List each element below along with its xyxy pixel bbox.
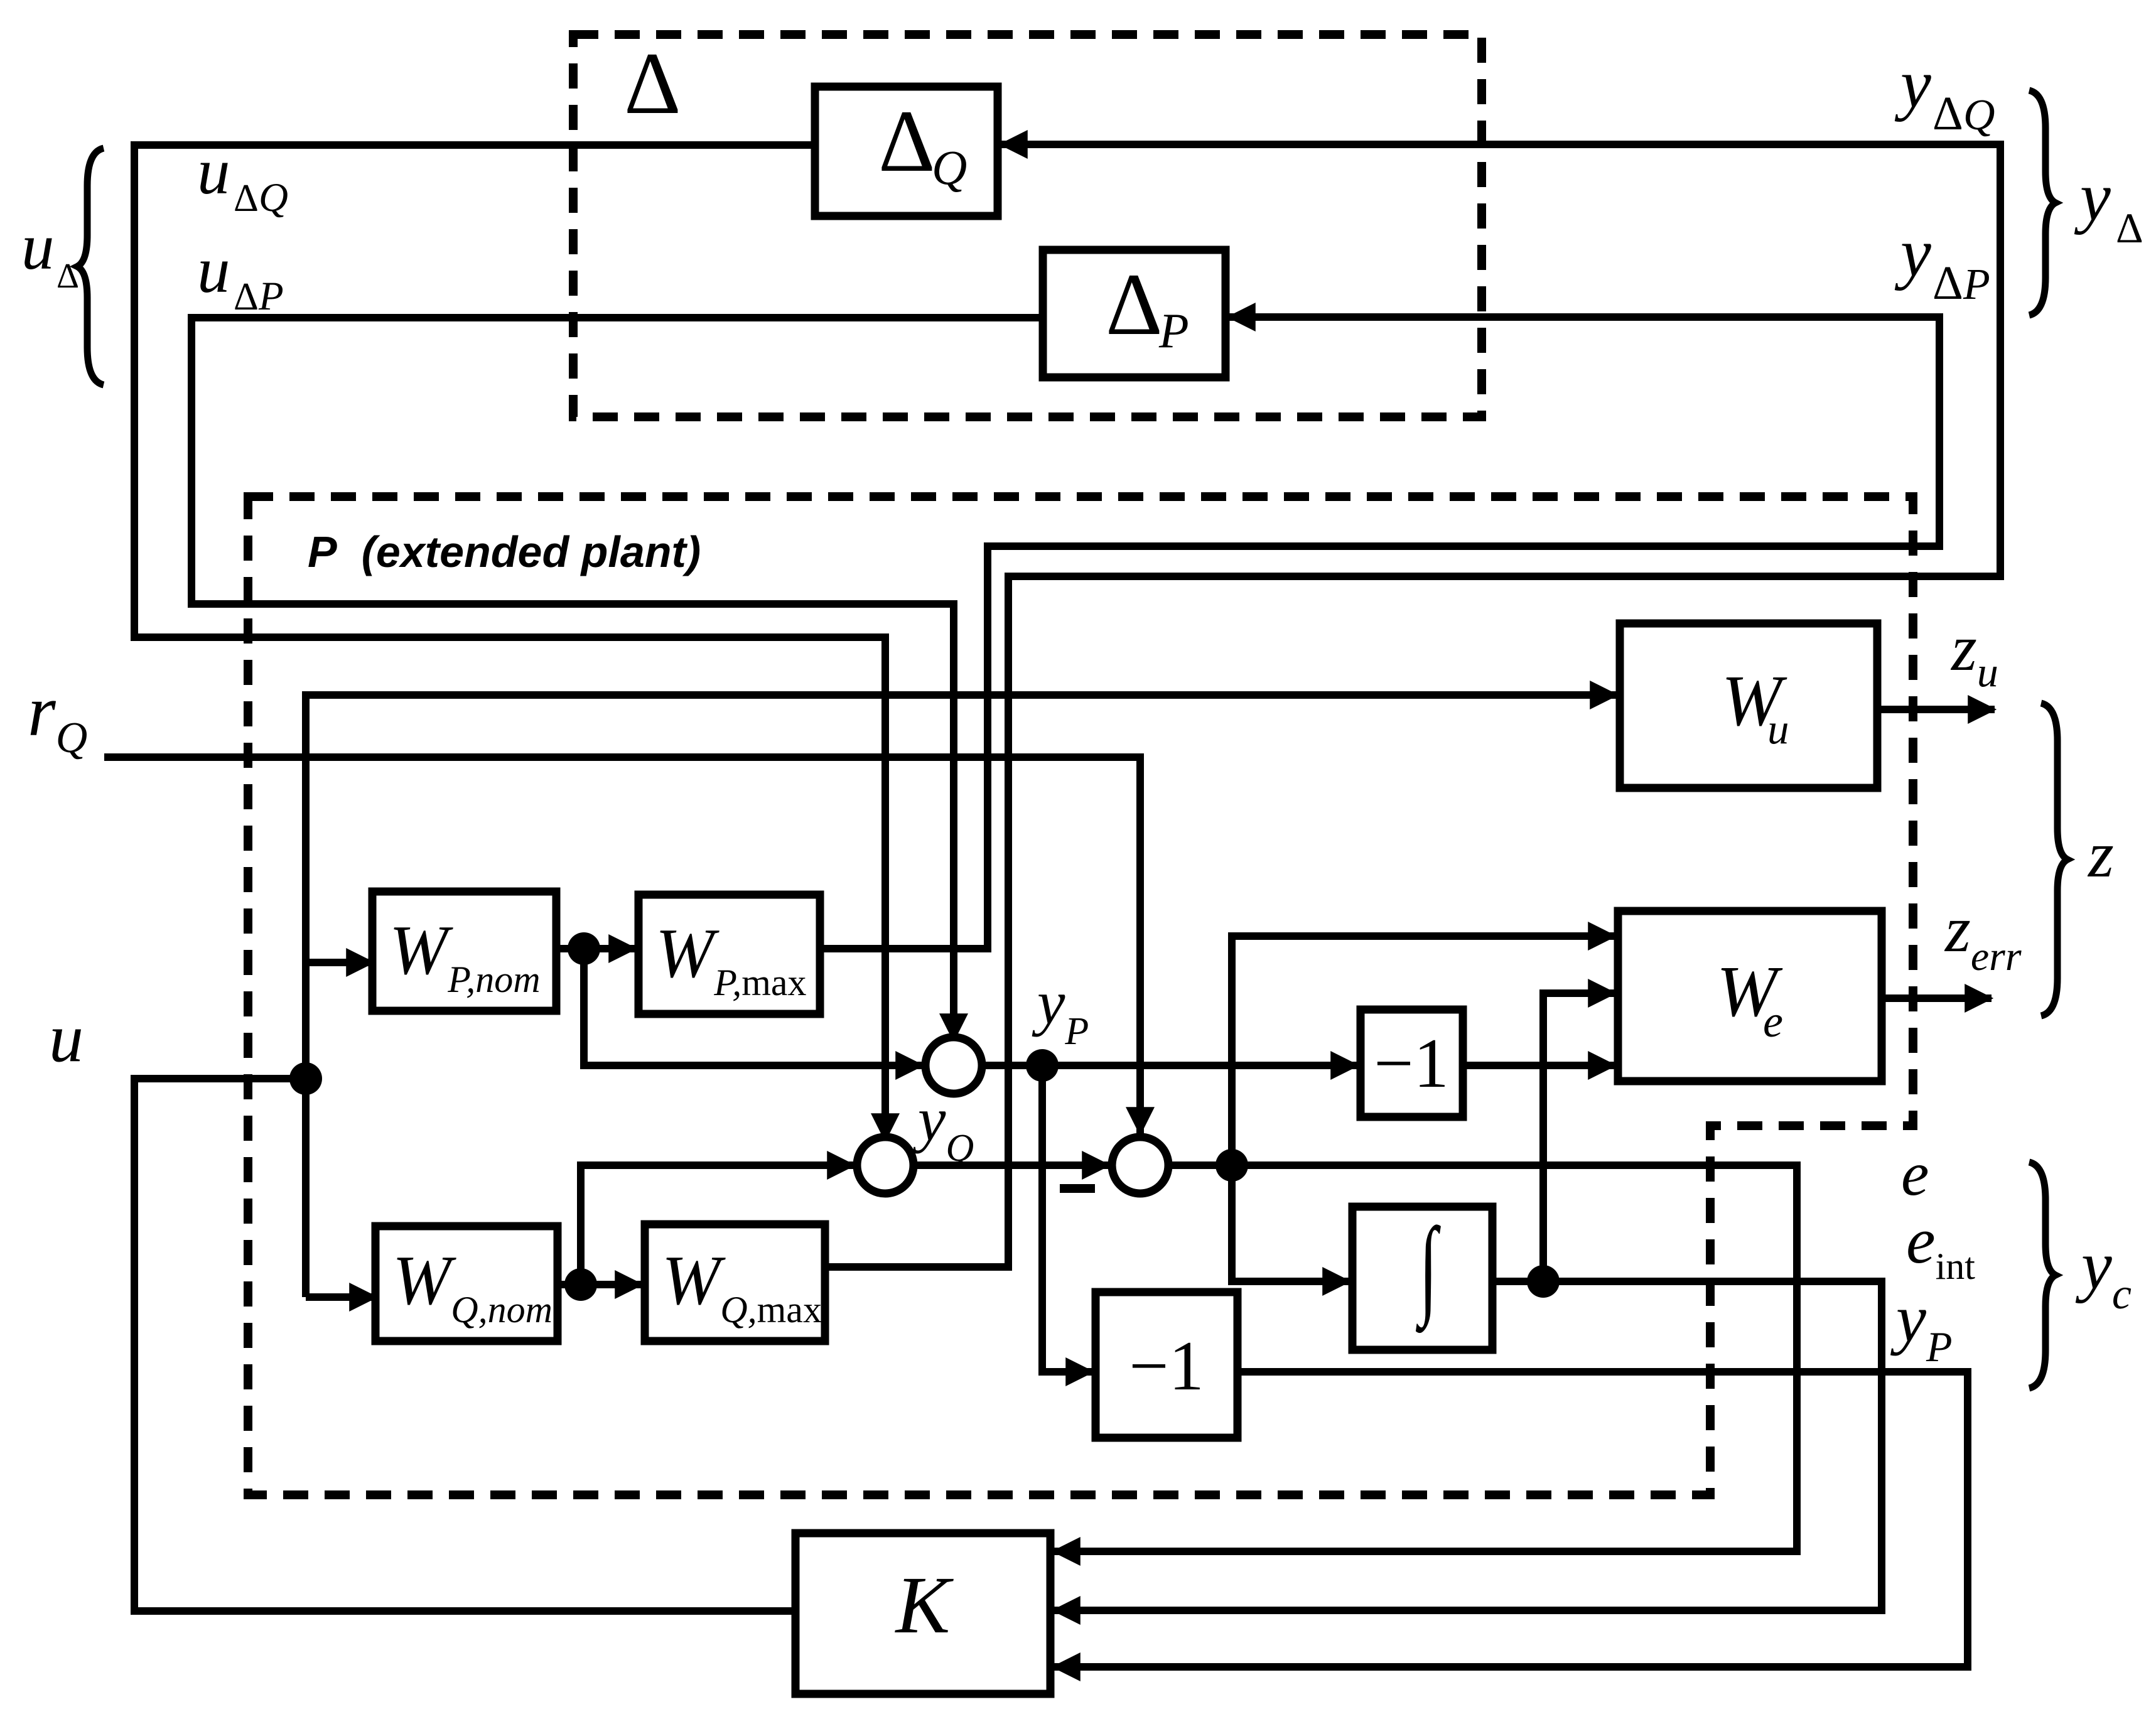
label Delta_P bbox=[1106, 256, 1189, 358]
wire u branch into W_Q,nom bbox=[306, 1293, 376, 1301]
svg-text:Δ: Δ bbox=[57, 257, 79, 296]
svg-text:u: u bbox=[197, 134, 230, 208]
svg-text:u: u bbox=[49, 1000, 84, 1076]
block Delta_P bbox=[1043, 250, 1226, 377]
wire W_Q,nom branch up into y_Q sum bbox=[581, 1165, 854, 1285]
block Delta_Q bbox=[815, 87, 998, 216]
label W_e bbox=[1717, 952, 1783, 1047]
wire y_Q: sum output into minus junction bbox=[914, 1161, 1109, 1169]
svg-text:P: P bbox=[1158, 303, 1189, 358]
brace z bbox=[2041, 703, 2067, 1016]
svg-text:zu: zu bbox=[1950, 611, 1998, 696]
wire W_P,nom output to W_P,max bbox=[556, 945, 635, 952]
extended plant boundary (dashed box P, with bottom-right notch) bbox=[248, 497, 1913, 1495]
wire e riser into W_e top input bbox=[1232, 936, 1615, 1165]
svg-text:Δ: Δ bbox=[234, 276, 259, 318]
svg-text:rQ: rQ bbox=[28, 671, 87, 762]
svg-text:yP: yP bbox=[1890, 1281, 1952, 1371]
wire u riser: node up to W_u input bbox=[306, 695, 1617, 1297]
svg-text:WP,max: WP,max bbox=[655, 915, 807, 1003]
junction node e bbox=[1215, 1149, 1248, 1182]
wire u_DeltaP: Delta_P output left, down, right, down into y_P sum bbox=[191, 318, 1043, 1040]
svg-text:∫: ∫ bbox=[1416, 1206, 1442, 1334]
wire y_DeltaQ: W_Q,max output up and around into Delta_Q bbox=[825, 144, 2000, 1267]
wire e branch down into integrator bbox=[1232, 1165, 1349, 1281]
brace y_c bbox=[2029, 1162, 2056, 1388]
svg-text:Q: Q bbox=[932, 140, 967, 195]
brace u_Delta bbox=[77, 148, 104, 385]
svg-text:Δ: Δ bbox=[624, 35, 681, 132]
summing junction y_P bbox=[925, 1037, 982, 1094]
block W_P,nom bbox=[372, 892, 556, 1011]
minus sign at e summing junction bbox=[1060, 1184, 1095, 1193]
block W_Q,max bbox=[645, 1224, 825, 1341]
block integrator bbox=[1352, 1207, 1492, 1350]
svg-text:e: e bbox=[1763, 996, 1783, 1047]
block W_u bbox=[1620, 623, 1877, 788]
label Delta_Q bbox=[878, 92, 967, 195]
svg-text:−1: −1 bbox=[1129, 1327, 1204, 1405]
block W_Q,nom bbox=[375, 1226, 558, 1341]
svg-text:Δ: Δ bbox=[878, 92, 935, 190]
wire z_err: W_e output arrow bbox=[1882, 994, 1992, 1002]
svg-text:yQ: yQ bbox=[912, 1084, 974, 1170]
summing junction y_Q bbox=[857, 1137, 914, 1194]
svg-text:Δ: Δ bbox=[234, 177, 259, 220]
wire u_DeltaQ: Delta_Q output left, down, right, down into y_Q sum bbox=[134, 145, 885, 1140]
svg-text:K: K bbox=[895, 1560, 954, 1651]
summing junction e (with minus) bbox=[1112, 1137, 1168, 1194]
wire y_P measurement: lower -1 output right, down and left into K input 3 bbox=[1054, 1372, 1968, 1667]
svg-text:eint: eint bbox=[1906, 1204, 1975, 1287]
wire e: minus junction output right, down and left into K input 1 bbox=[1054, 1165, 1797, 1551]
wire u: controller K output left and up to plant input node bbox=[134, 1079, 795, 1611]
wire z_u: W_u output arrow bbox=[1877, 706, 1995, 713]
wire -1 output into W_e bottom input bbox=[1463, 1062, 1615, 1069]
wire y_DeltaP: W_P,max output up and around into Delta_P bbox=[820, 317, 1939, 949]
label y_Delta bbox=[2074, 158, 2143, 252]
svg-text:Q: Q bbox=[259, 175, 288, 220]
svg-text:−1: −1 bbox=[1374, 1025, 1448, 1102]
svg-text:WQ,nom: WQ,nom bbox=[392, 1242, 552, 1330]
label u_Delta bbox=[21, 210, 79, 296]
svg-text:Q: Q bbox=[1963, 91, 1995, 139]
svg-text:y: y bbox=[1894, 45, 1931, 122]
label y_DeltaP bbox=[1894, 214, 1990, 310]
svg-text:u: u bbox=[21, 210, 55, 283]
svg-text:Δ: Δ bbox=[1106, 256, 1163, 353]
uncertainty block boundary (dashed box Delta) bbox=[573, 35, 1482, 417]
wire e_int: integrator output right, down and left into K input 2 bbox=[1054, 1281, 1882, 1610]
label u_DeltaP bbox=[197, 233, 284, 319]
junction node after W_Q,nom bbox=[564, 1268, 597, 1301]
svg-text:WP,nom: WP,nom bbox=[389, 912, 541, 1000]
block -1 (lower) bbox=[1096, 1292, 1237, 1438]
wire r_Q: reference input, right and down into minus junction bbox=[104, 757, 1140, 1134]
svg-text:P: P bbox=[1963, 261, 1990, 309]
svg-text:Δ: Δ bbox=[2116, 204, 2143, 252]
wire W_Q,nom output to W_Q,max bbox=[558, 1281, 642, 1288]
svg-text:yc: yc bbox=[2075, 1227, 2132, 1318]
svg-text:P: P bbox=[258, 274, 284, 319]
svg-text:y: y bbox=[2074, 158, 2111, 235]
junction node e_int bbox=[1527, 1265, 1560, 1298]
wire W_P,nom branch down into y_P sum bbox=[584, 949, 922, 1065]
svg-text:y: y bbox=[1894, 214, 1931, 291]
svg-text:yP: yP bbox=[1032, 967, 1089, 1053]
wire u branch into W_P,nom bbox=[306, 959, 373, 966]
label y_DeltaQ bbox=[1894, 45, 1995, 140]
block W_P,max bbox=[639, 895, 820, 1014]
junction node y_P bbox=[1026, 1049, 1059, 1082]
svg-text:Δ: Δ bbox=[1932, 87, 1963, 140]
label W_u bbox=[1722, 661, 1789, 753]
svg-text:u: u bbox=[197, 233, 230, 306]
wire y_P: sum output right into -1 block bbox=[982, 1062, 1357, 1069]
svg-text:z: z bbox=[2087, 817, 2114, 891]
wire y_P branch down into lower -1 block bbox=[1042, 1065, 1092, 1372]
brace y_Delta bbox=[2029, 90, 2056, 315]
wire e_int riser into W_e middle input bbox=[1543, 993, 1615, 1281]
svg-text:WQ,max: WQ,max bbox=[662, 1242, 822, 1330]
block K (controller) bbox=[795, 1533, 1050, 1694]
svg-text:e: e bbox=[1901, 1139, 1929, 1209]
junction node u (plant input) bbox=[289, 1062, 322, 1095]
block -1 (upper) bbox=[1361, 1010, 1463, 1117]
junction node after W_P,nom bbox=[568, 932, 600, 965]
svg-text:u: u bbox=[1767, 705, 1789, 753]
svg-text:zerr: zerr bbox=[1944, 892, 2022, 979]
block W_e bbox=[1618, 911, 1882, 1081]
label u_DeltaQ bbox=[197, 134, 288, 220]
svg-text:Δ: Δ bbox=[1932, 257, 1963, 310]
svg-text:P (extended plant): P (extended plant) bbox=[308, 527, 701, 576]
